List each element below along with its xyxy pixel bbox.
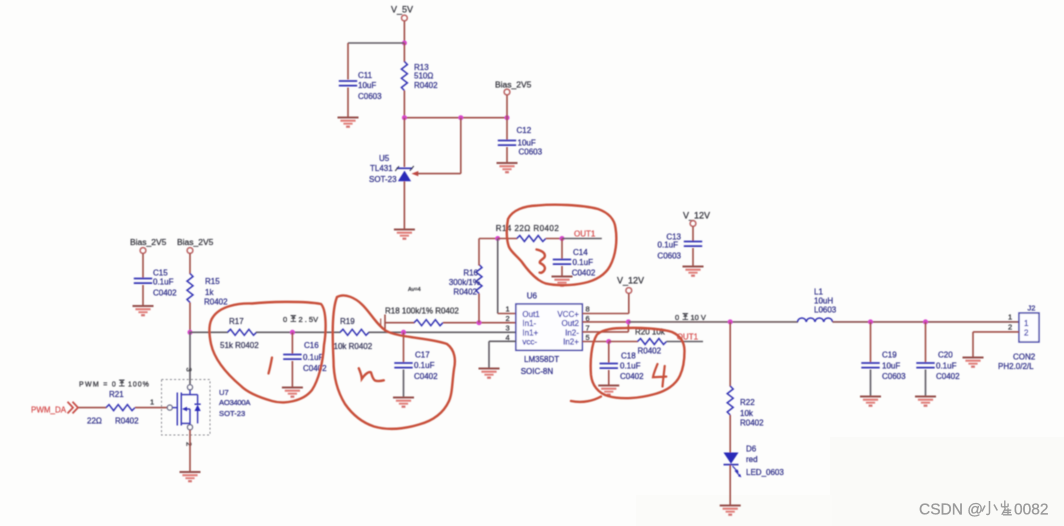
wire R18 right to pin2: [443, 322, 516, 324]
svg-text:5: 5: [586, 333, 590, 342]
annotation circle 4 (around C18/R20): [591, 328, 685, 398]
svg-text:SOT-23: SOT-23: [369, 175, 397, 184]
ground under C18: [598, 386, 619, 395]
wire C14 upper: [561, 239, 563, 259]
wire R22 to LED: [729, 415, 731, 453]
annotation circle 2 (around R19/C17): [333, 295, 455, 428]
wire C16 upper: [291, 332, 293, 353]
node C17 tap: [401, 330, 406, 335]
svg-text:R0402: R0402: [453, 288, 477, 297]
ground under C17: [393, 398, 414, 407]
svg-text:V_12V: V_12V: [617, 276, 644, 286]
node R16 bottom: [477, 320, 482, 325]
node C20 tap: [923, 319, 928, 324]
wire R14 left: [498, 238, 518, 240]
svg-text:C12: C12: [517, 126, 532, 135]
svg-text:10k R0402: 10k R0402: [334, 342, 373, 351]
annotation circle 3 (around R14/C14): [507, 205, 617, 285]
svg-text:R21: R21: [109, 390, 124, 399]
capacitor C17: [394, 351, 438, 382]
wire pin6 out2: [582, 321, 628, 323]
wire R16 top: [478, 239, 480, 266]
svg-text:2 . 5V: 2 . 5V: [299, 315, 319, 324]
wire OUT1 tail: [562, 238, 602, 240]
wire R16 bottom: [478, 294, 480, 323]
svg-text:L1: L1: [814, 288, 823, 297]
capacitor C16: [283, 341, 327, 373]
svg-text:R16: R16: [463, 269, 478, 278]
resistor R15: [187, 274, 228, 307]
watermark cui glyph: [1002, 501, 1012, 516]
svg-text:0.1uF: 0.1uF: [936, 362, 957, 371]
svg-text:Aν=4: Aν=4: [408, 287, 421, 293]
svg-text:LED_0603: LED_0603: [746, 468, 784, 477]
wire bias stub: [506, 95, 508, 118]
svg-text:C0402: C0402: [303, 364, 327, 373]
wire R22 upper: [729, 322, 731, 387]
svg-text:OUT1: OUT1: [574, 230, 596, 239]
power terminal Bias_2V5 (C15): [130, 237, 167, 253]
wire pin5 in2+: [582, 341, 609, 343]
ground under U7: [180, 472, 201, 481]
svg-text:10uF: 10uF: [882, 362, 900, 371]
wire C17 upper: [403, 332, 405, 362]
resistor R20: [635, 328, 667, 356]
wire TL431 cathode: [403, 118, 405, 167]
node R15 bottom: [188, 330, 193, 335]
svg-text:R0402: R0402: [204, 298, 228, 307]
svg-text:10k: 10k: [740, 409, 754, 418]
wire C15 upper: [142, 254, 144, 278]
svg-text:0.1uF: 0.1uF: [414, 361, 435, 370]
wire C20 upper: [925, 322, 927, 362]
svg-text:C18: C18: [621, 352, 636, 361]
svg-text:C0402: C0402: [620, 372, 644, 381]
ground under D6: [720, 506, 741, 515]
capacitor C15: [134, 269, 177, 298]
node C19 tap: [868, 319, 873, 324]
svg-text:0.1uF: 0.1uF: [620, 362, 641, 371]
svg-text:J2: J2: [1028, 304, 1036, 313]
ground under pin4: [479, 369, 500, 378]
svg-text:V_5V: V_5V: [391, 5, 413, 15]
svg-text:51k R0402: 51k R0402: [220, 341, 259, 350]
svg-text:C20: C20: [938, 351, 953, 360]
svg-text:0.1uF: 0.1uF: [573, 258, 594, 267]
svg-text:SOT-23: SOT-23: [219, 409, 245, 418]
ground under J2 pin2: [963, 358, 984, 367]
node bias: [505, 115, 510, 120]
LED D6: [724, 445, 785, 478]
svg-text:2: 2: [185, 442, 194, 446]
annotation digit 3: [537, 250, 545, 273]
label 0 to 10 V: [675, 313, 706, 322]
svg-text:Bias_2V5: Bias_2V5: [495, 80, 532, 90]
svg-text:1: 1: [150, 398, 154, 407]
svg-text:10uH: 10uH: [814, 297, 833, 306]
annotation circle 1 (around R17/C16): [209, 302, 325, 403]
capacitor C13: [657, 233, 702, 261]
resistor R17: [220, 317, 259, 350]
wire R18 left: [385, 322, 415, 324]
svg-text:U7: U7: [219, 388, 229, 397]
node C16 tap: [290, 330, 295, 335]
svg-text:C17: C17: [415, 351, 430, 360]
svg-text:vcc-: vcc-: [522, 338, 537, 347]
resistor R14: [496, 224, 560, 242]
node LED branch junction: [728, 319, 733, 324]
node PWM_DA port: [31, 402, 78, 415]
transistor U7 AO3400A: [162, 368, 252, 447]
svg-text:U5: U5: [379, 154, 390, 163]
svg-text:C0603: C0603: [519, 148, 543, 157]
wire C19 lower: [870, 370, 872, 396]
svg-text:22Ω: 22Ω: [87, 417, 102, 426]
wire mosfet source down: [189, 430, 191, 471]
svg-text:In2+: In2+: [563, 338, 579, 347]
svg-text:0: 0: [283, 315, 287, 324]
capacitor C11: [339, 71, 382, 101]
capacitor C18: [600, 352, 645, 382]
wire C17 lower: [403, 370, 405, 397]
wire C16 lower: [291, 361, 293, 387]
node R14 left: [495, 236, 500, 241]
node C18 tap: [606, 339, 611, 344]
wire in1+ bus mid: [256, 331, 341, 333]
svg-text:10 V: 10 V: [691, 313, 706, 322]
capacitor C12: [498, 126, 543, 157]
svg-text:C0402: C0402: [153, 289, 177, 298]
wire LED lower: [729, 465, 731, 505]
svg-text:L0603: L0603: [814, 306, 837, 315]
resistor R18: [385, 307, 459, 326]
svg-text:D6: D6: [746, 445, 757, 454]
svg-text:R14 22Ω R0402: R14 22Ω R0402: [496, 224, 560, 233]
power terminal V_12V (pin8): [617, 276, 644, 294]
svg-text:R0402: R0402: [414, 81, 438, 90]
svg-text:1: 1: [506, 305, 510, 314]
resistor R22: [727, 386, 764, 428]
wire PWM to R21: [79, 407, 107, 409]
label PWM = 0 to 100%: [79, 380, 150, 389]
svg-text:VCC+: VCC+: [557, 310, 579, 319]
svg-text:C15: C15: [153, 269, 168, 278]
svg-text:C14: C14: [573, 248, 588, 257]
ground under C13: [683, 267, 704, 276]
svg-text:R19: R19: [340, 317, 355, 326]
wire R21 to gate: [135, 407, 167, 409]
wire C12 lower: [506, 147, 508, 162]
svg-text:In1+: In1+: [522, 329, 538, 338]
capacitor C19: [861, 351, 906, 382]
wire C18 lower: [608, 370, 610, 385]
ground under C15: [133, 306, 154, 315]
wire R14 right: [546, 238, 562, 240]
svg-text:CON2: CON2: [1013, 353, 1036, 362]
svg-text:10uF: 10uF: [518, 139, 536, 148]
connector J2 CON2: [998, 304, 1039, 372]
power terminal V_12V (C13): [683, 211, 710, 227]
wire bias row: [404, 117, 507, 119]
ground under C16: [282, 388, 303, 397]
wire R18 left stubs: [381, 315, 385, 332]
ground under C19: [860, 397, 881, 406]
svg-text:TL431: TL431: [370, 164, 393, 173]
power terminal V_5V: [391, 5, 413, 21]
svg-text:2: 2: [506, 314, 510, 323]
svg-text:0.1uF: 0.1uF: [153, 278, 174, 287]
wire C20 lower: [925, 370, 927, 396]
svg-text:0.1uF: 0.1uF: [303, 353, 324, 362]
wire output bus: [628, 321, 798, 323]
svg-text:CSDN @: CSDN @: [919, 502, 983, 519]
svg-text:C0603: C0603: [358, 92, 382, 101]
svg-text:Out1: Out1: [522, 310, 540, 319]
svg-text:0.1uF: 0.1uF: [658, 241, 679, 250]
ground under C14: [552, 277, 573, 286]
ground under C12: [497, 163, 518, 172]
svg-text:C0402: C0402: [414, 372, 438, 381]
wire pin8 vcc+: [582, 294, 629, 314]
op-amp U6 LM358DT: [516, 292, 582, 377]
svg-text:In1-: In1-: [522, 319, 536, 328]
node C14 tap: [560, 236, 565, 241]
wire TL431 anode: [403, 181, 405, 228]
svg-text:10uF: 10uF: [358, 81, 376, 90]
svg-text:red: red: [746, 455, 758, 464]
svg-text:1: 1: [1008, 313, 1012, 322]
svg-text:R18 100k/1% R0402: R18 100k/1% R0402: [385, 307, 459, 316]
wire in1+ bus left: [189, 331, 228, 333]
svg-text:510Ω: 510Ω: [414, 72, 433, 81]
svg-text:3: 3: [506, 324, 510, 333]
svg-text:1k: 1k: [205, 288, 214, 297]
label 0 to 2.5V: [283, 315, 318, 324]
svg-text:R0402: R0402: [740, 419, 764, 428]
wire mosfet drain riser: [189, 332, 191, 384]
svg-text:300k/1%: 300k/1%: [449, 278, 480, 287]
wire V_5V stub: [403, 21, 405, 43]
wire R20 right tail: [667, 341, 704, 343]
svg-text:2: 2: [1024, 329, 1029, 338]
wire R16 to R14 node: [479, 238, 498, 240]
annotation circle 4 tail: [571, 397, 601, 402]
annotation digit 4: [653, 364, 666, 387]
capacitor C14: [553, 248, 596, 278]
wire C19 upper: [870, 322, 872, 362]
wire pin1 riser: [498, 239, 516, 314]
resistor R13: [401, 62, 438, 91]
svg-text:C19: C19: [882, 351, 897, 360]
svg-text:100%: 100%: [128, 382, 150, 389]
svg-text:C0402: C0402: [572, 269, 596, 278]
wire C18 upper: [608, 342, 610, 363]
wire R13 lower: [403, 91, 405, 118]
wire pin4 vcc-: [489, 341, 516, 367]
wire C14 lower: [561, 266, 563, 276]
svg-text:PWM_DA: PWM_DA: [31, 406, 67, 415]
capacitor C20: [916, 351, 960, 382]
wire L1 to J2: [833, 321, 1020, 323]
node ref riser: [458, 115, 463, 120]
svg-text:LM358DT: LM358DT: [524, 355, 559, 364]
svg-text:0082: 0082: [1014, 502, 1048, 519]
svg-text:In2-: In2-: [565, 329, 579, 338]
node feedback junction: [626, 319, 631, 324]
ground under C20: [915, 397, 936, 406]
wire in1+ bus right: [369, 331, 516, 333]
svg-text:R0402: R0402: [115, 417, 139, 426]
svg-text:C0603: C0603: [657, 252, 681, 261]
wire C13 lower: [692, 248, 694, 266]
faint photo-gray patch bottom right: [830, 437, 1064, 526]
svg-text:R0402: R0402: [638, 347, 662, 356]
wire R15 upper: [189, 254, 191, 275]
svg-text:Bias_2V5: Bias_2V5: [177, 237, 214, 247]
svg-text:V_12V: V_12V: [683, 211, 710, 221]
wire to C11: [348, 42, 404, 44]
power terminal Bias_2V5 (R15): [177, 237, 214, 253]
resistor R21: [87, 390, 139, 426]
wire R13 upper: [403, 43, 405, 62]
inductor L1: [798, 288, 837, 322]
wire pin7 in2-: [582, 322, 628, 332]
svg-text:C11: C11: [358, 71, 373, 80]
wire C15 lower: [142, 285, 144, 305]
node V5 top junction: [402, 41, 407, 46]
annotation digit 2: [359, 368, 384, 381]
svg-text:SOIC-8N: SOIC-8N: [521, 367, 554, 376]
svg-text:Out2: Out2: [562, 319, 580, 328]
svg-text:U6: U6: [527, 292, 538, 301]
svg-text:3: 3: [185, 368, 194, 372]
annotation digit 1: [269, 358, 273, 374]
svg-text:Bias_2V5: Bias_2V5: [130, 237, 167, 247]
ground under C11: [338, 118, 359, 127]
svg-text:R22: R22: [740, 398, 755, 407]
svg-text:8: 8: [586, 305, 590, 314]
svg-text:C16: C16: [304, 341, 319, 350]
wire C13 upper: [692, 227, 694, 242]
resistor R19: [334, 317, 373, 351]
ground under U5: [394, 230, 415, 239]
op-amp U5 TL431 symbol: [369, 154, 414, 184]
power terminal Bias_2V5 top: [495, 80, 532, 95]
faint photo-gray patch bottom mid: [636, 495, 832, 526]
svg-text:0: 0: [675, 313, 679, 322]
svg-text:1: 1: [1024, 319, 1029, 328]
endsoft: [919, 501, 1048, 519]
wire J2 pin2: [973, 332, 1019, 357]
resistor R16: [449, 265, 482, 297]
svg-text:R15: R15: [205, 277, 220, 286]
wire to R20: [609, 341, 638, 343]
svg-text:C0603: C0603: [882, 372, 906, 381]
svg-text:PWM = 0: PWM = 0: [79, 382, 117, 389]
svg-text:C0402: C0402: [936, 372, 960, 381]
svg-text:2: 2: [1008, 323, 1012, 332]
node R13 bottom: [402, 115, 407, 120]
svg-text:AO3400A: AO3400A: [219, 398, 251, 407]
watermark xiao glyph: [982, 501, 997, 514]
wire C11 upper: [347, 43, 349, 80]
wire ref arrow: [412, 118, 461, 177]
wire C11 lower: [347, 88, 349, 117]
svg-text:R17: R17: [229, 317, 244, 326]
svg-text:PH2.0/2/L: PH2.0/2/L: [998, 362, 1034, 371]
wire C12 upper: [506, 118, 508, 140]
wire R15 lower: [189, 303, 191, 333]
